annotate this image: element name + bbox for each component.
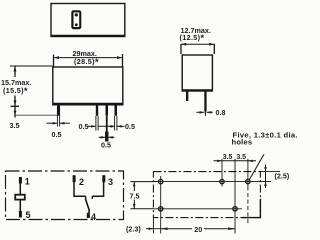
movable contact arm	[85, 199, 89, 213]
pin2 width extension lines	[95, 116, 97, 131]
side view body outline	[182, 55, 212, 91]
terminal 5 mark	[19, 211, 22, 218]
svg-text:0.5: 0.5	[125, 122, 135, 131]
terminal 3 mark	[102, 175, 105, 182]
dimension 20 line	[161, 228, 192, 230]
terminal 2 mark	[73, 175, 76, 182]
top view bottom edge (thick)	[51, 35, 125, 37]
pcb outline bottom-right corner solid	[242, 199, 261, 218]
svg-text:3: 3	[108, 177, 113, 187]
dimension 12.7 extension right	[213, 44, 215, 54]
svg-text:3.5: 3.5	[223, 154, 233, 161]
front view pin 3	[106, 105, 109, 116]
svg-text:0.8: 0.8	[216, 108, 226, 117]
dimension 15.7max arrow down	[14, 100, 17, 105]
dimension 15.7max top extension	[10, 65, 53, 67]
dimension 15.7max arrow up	[14, 66, 17, 72]
front view pin 1 (left)	[57, 105, 59, 116]
dimension 15.7max line lower	[14, 96, 16, 118]
coil	[15, 195, 25, 200]
seating plane tick	[11, 105, 20, 107]
NO contact tick	[91, 196, 93, 199]
pcb 7.5 bottom extension	[130, 208, 153, 210]
pcb top row centerline	[153, 181, 271, 183]
pcb top edge right extension	[260, 171, 280, 173]
svg-text:(2.3): (2.3)	[126, 225, 141, 234]
hole bottom-left	[159, 207, 163, 211]
dimension 29max extension right	[122, 54, 124, 67]
dimension 3.5 arrows	[217, 160, 222, 163]
svg-text:1: 1	[25, 177, 30, 187]
side view pin left	[186, 91, 188, 101]
dimension 29max extension left	[53, 55, 55, 67]
dimension 2.5 line	[265, 165, 267, 189]
dimension 2.3 arrow	[146, 228, 153, 230]
svg-text:0.5: 0.5	[79, 122, 89, 131]
pcb 7.5 top extension	[130, 181, 153, 183]
internal connections box (dashed)	[6, 171, 124, 220]
front view body outline	[53, 67, 123, 105]
pin tip reference line	[15, 114, 60, 116]
svg-text:(15.5)*: (15.5)*	[3, 86, 28, 97]
pin4 width extension lines	[114, 116, 116, 131]
dimension 7.5 line	[133, 182, 135, 191]
front view bottom edge (thick)	[53, 103, 123, 106]
pcb bottom row centerline	[153, 208, 242, 210]
side view bottom edge (thick)	[182, 89, 212, 91]
dimension 2.3 extension (pcb left edge)	[152, 218, 154, 234]
pcb column centerline x=235	[234, 159, 236, 234]
pin1 width extension lines	[56, 106, 58, 127]
dimension 20 arrows	[161, 227, 168, 230]
svg-text:2: 2	[79, 177, 84, 187]
dimension 7.5 arrows	[133, 182, 136, 187]
pin group arrows	[91, 125, 96, 128]
svg-text:20: 20	[194, 225, 202, 234]
terminal 4 mark	[87, 213, 90, 218]
leader line to hole	[249, 154, 264, 179]
coil lead wire lower	[19, 200, 21, 212]
dimension 0.8 line	[197, 111, 205, 113]
terminal 3 wire	[92, 182, 103, 196]
dimension 29max arrow right	[117, 56, 123, 59]
NC contact tick	[85, 196, 87, 199]
dimension 0.8 arrows	[200, 111, 205, 114]
hole bottom-middle	[233, 207, 237, 211]
front view pin 4	[115, 105, 118, 116]
top view body outline	[51, 4, 125, 37]
svg-text:(12.5)*: (12.5)*	[180, 33, 205, 44]
pin group dimension line at y=126.3	[88, 125, 96, 127]
pcb outline (dash-dot)	[153, 172, 260, 218]
pin3 center extension line	[106, 116, 108, 142]
dimension 12.7 line	[181, 43, 214, 45]
terminal 1 mark	[19, 177, 22, 184]
svg-text:0.5: 0.5	[101, 140, 111, 149]
pcb left column centerline	[160, 176, 162, 234]
top view armature slot	[71, 10, 81, 29]
front view pin 2	[96, 105, 98, 116]
svg-text:(2.5): (2.5)	[275, 172, 290, 181]
svg-text:5: 5	[26, 210, 31, 220]
hole top-right	[246, 179, 250, 183]
dimension 29max line	[54, 57, 123, 59]
pcb column centerline x=247.9	[247, 159, 249, 187]
coil lead wire upper	[19, 184, 21, 195]
svg-text:0.5: 0.5	[52, 130, 62, 139]
dimension 12.7 arrows	[181, 43, 186, 46]
dimension 2.3 line segment	[153, 228, 160, 230]
svg-text:4: 4	[91, 212, 96, 222]
dimension 3.5 arrow down	[14, 111, 17, 116]
dimension 2.5 arrows	[264, 167, 267, 171]
hole top-left	[159, 179, 163, 183]
pin3 width arrows	[101, 136, 106, 139]
dimension 3.5 3.5 line	[214, 160, 257, 162]
dimension 15.7max line upper	[14, 66, 16, 77]
pin1 width dimension line	[47, 122, 58, 124]
svg-text:3.5: 3.5	[10, 121, 20, 130]
hole top-middle	[220, 179, 224, 183]
svg-text:7.5: 7.5	[130, 191, 140, 200]
terminal 2 wire	[74, 182, 86, 196]
pin3 width dimension line	[99, 136, 106, 138]
pin1 width arrows	[53, 122, 58, 125]
pcb column centerline x=222	[221, 159, 223, 187]
dimension 29max arrow left	[54, 56, 60, 59]
side view pin right	[204, 91, 206, 112]
svg-text:holes: holes	[232, 137, 253, 146]
svg-text:3.5: 3.5	[236, 154, 246, 161]
dimension 12.7 extension left	[180, 44, 182, 54]
